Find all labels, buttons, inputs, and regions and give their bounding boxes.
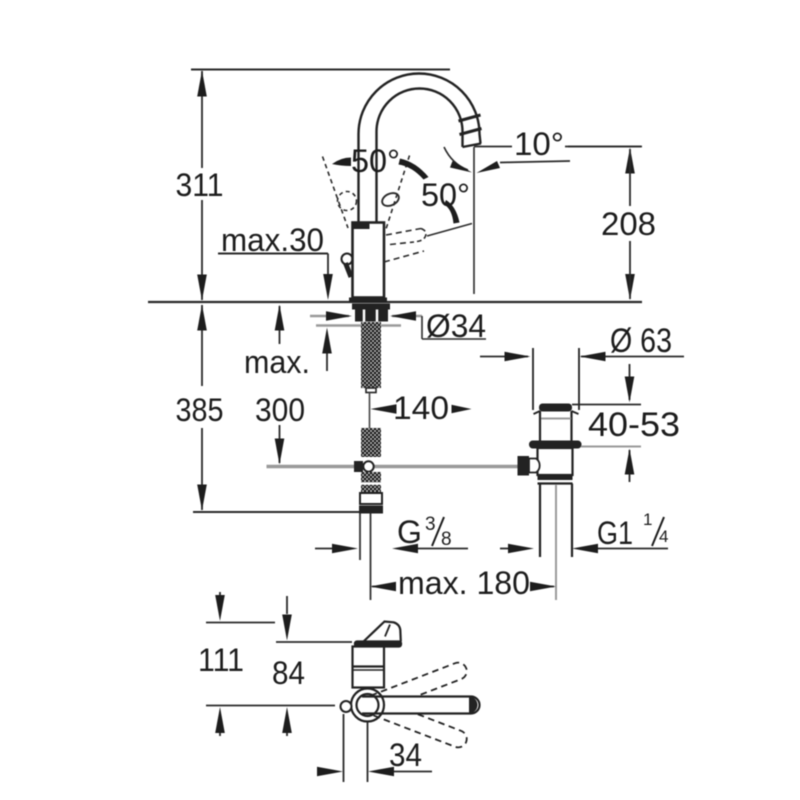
svg-text:84: 84 — [272, 655, 305, 691]
svg-text:max. 180: max. 180 — [398, 565, 530, 601]
svg-text:300: 300 — [255, 392, 305, 428]
svg-text:Ø 63: Ø 63 — [610, 322, 672, 360]
svg-text:385: 385 — [176, 392, 224, 428]
svg-text:max.: max. — [244, 344, 310, 380]
svg-text:140: 140 — [393, 390, 449, 426]
svg-text:1: 1 — [643, 510, 652, 529]
svg-text:311: 311 — [176, 167, 224, 203]
svg-text:G: G — [397, 514, 422, 550]
svg-text:Ø34: Ø34 — [426, 308, 486, 344]
svg-text:3: 3 — [425, 514, 436, 535]
svg-text:10°: 10° — [514, 126, 564, 162]
svg-text:50°: 50° — [351, 143, 400, 179]
svg-text:111: 111 — [198, 642, 244, 678]
svg-text:34: 34 — [389, 737, 422, 773]
svg-text:G1: G1 — [597, 515, 633, 551]
svg-text:max.30: max.30 — [221, 222, 324, 258]
svg-text:50°: 50° — [421, 177, 470, 213]
svg-text:8: 8 — [441, 529, 452, 550]
svg-text:208: 208 — [601, 206, 656, 242]
svg-text:4: 4 — [659, 527, 668, 546]
svg-text:40-53: 40-53 — [588, 406, 680, 444]
